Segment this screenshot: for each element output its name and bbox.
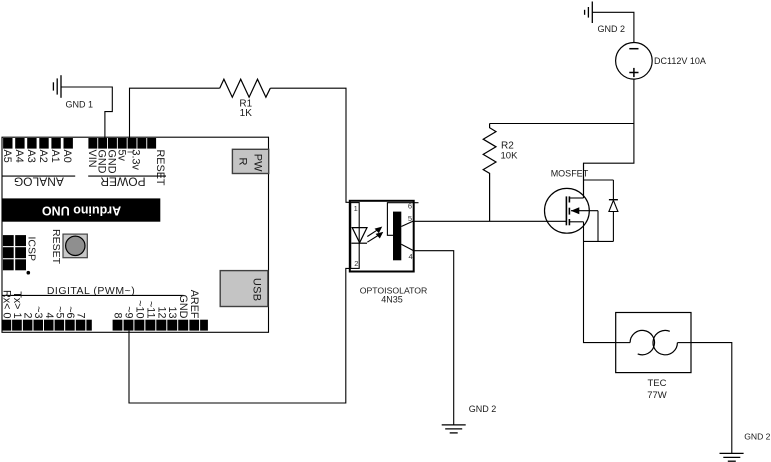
svg-text:~9: ~9 bbox=[123, 306, 135, 318]
opto LED side inner rect bbox=[351, 203, 360, 269]
wire opto pin 4 to GND2 bbox=[414, 251, 454, 425]
ground GND1 symbol (rotated, left) bbox=[53, 75, 61, 98]
TEC module bbox=[616, 313, 691, 373]
wire DC source plus to MOSFET drain bbox=[584, 79, 634, 198]
RESET button bbox=[63, 234, 87, 258]
svg-text:2: 2 bbox=[354, 259, 358, 268]
svg-text:GND: GND bbox=[177, 295, 189, 319]
svg-text:1: 1 bbox=[354, 204, 358, 213]
wire opto pin 5 to MOSFET gate bbox=[414, 220, 567, 222]
wire GND1 to Arduino GND pin bbox=[61, 87, 112, 139]
resistor R1 bbox=[220, 79, 271, 97]
svg-text:12: 12 bbox=[155, 306, 167, 318]
optoisolator U1 4N35 bbox=[350, 201, 419, 272]
transistor Q1 MOSFET bbox=[545, 163, 599, 233]
svg-text:~5: ~5 bbox=[53, 306, 65, 318]
svg-text:GND 2: GND 2 bbox=[469, 404, 497, 414]
Arduino UNO module U2 bbox=[0, 137, 268, 332]
Arduino board outline bbox=[2, 137, 269, 332]
opto base lead to pin 6 bbox=[387, 203, 413, 236]
Arduino digital header pins 0-7 bbox=[2, 320, 92, 331]
svg-text:A3: A3 bbox=[25, 150, 37, 163]
svg-text:A5: A5 bbox=[1, 150, 13, 163]
svg-text:5: 5 bbox=[408, 214, 412, 223]
PWR jack box bbox=[232, 149, 268, 173]
svg-text:10K: 10K bbox=[501, 150, 519, 161]
opto collector lead to pin 5 bbox=[401, 221, 413, 227]
opto LED diode symbol bbox=[351, 228, 367, 244]
svg-text:5v: 5v bbox=[115, 150, 127, 162]
svg-text:4: 4 bbox=[43, 312, 55, 318]
svg-text:A0: A0 bbox=[61, 150, 73, 163]
Arduino power pin labels bbox=[86, 150, 166, 186]
svg-text:ANALOG: ANALOG bbox=[14, 174, 64, 188]
Arduino silkscreen divider line (bottom) bbox=[2, 294, 183, 296]
wire source bottom rail bbox=[584, 240, 614, 242]
svg-text:DC112V 10A: DC112V 10A bbox=[654, 56, 706, 66]
svg-text:6: 6 bbox=[408, 202, 412, 211]
svg-text:4: 4 bbox=[409, 252, 413, 261]
Arduino silkscreen divider lines (top) bbox=[2, 175, 75, 177]
opto pin 6 stub bbox=[414, 202, 419, 204]
resistor R2 bbox=[483, 124, 496, 222]
opto phototransistor bar bbox=[393, 212, 401, 261]
svg-text:Rx< 0: Rx< 0 bbox=[0, 290, 12, 319]
svg-text:2: 2 bbox=[22, 312, 34, 318]
svg-text:13: 13 bbox=[166, 306, 178, 318]
Arduino power header pins bbox=[88, 138, 156, 149]
svg-text:Arduino UNO: Arduino UNO bbox=[42, 204, 121, 218]
svg-text:R: R bbox=[237, 158, 249, 166]
Arduino UNO name banner bbox=[3, 198, 161, 221]
svg-text:RESET: RESET bbox=[50, 229, 62, 265]
opto emitter lead to pin 4 bbox=[401, 244, 413, 250]
Arduino digital header pins 8-AREF bbox=[113, 320, 208, 331]
USB connector box bbox=[220, 271, 268, 307]
wire R1 to optoisolator pin 1 bbox=[270, 88, 350, 202]
svg-text:GND 2: GND 2 bbox=[598, 24, 626, 34]
svg-text:8: 8 bbox=[112, 312, 124, 318]
wire TEC to GND2 (bottom right) bbox=[691, 343, 732, 454]
DC source V1 DC112V 10A bbox=[616, 43, 653, 80]
svg-text:POWER: POWER bbox=[100, 174, 146, 188]
svg-text:ICSP: ICSP bbox=[26, 237, 38, 262]
svg-text:GND 1: GND 1 bbox=[66, 100, 94, 110]
ground GND2 symbol (bottom middle) bbox=[442, 425, 466, 433]
svg-text:PW: PW bbox=[252, 154, 264, 172]
svg-text:AREF: AREF bbox=[188, 290, 200, 319]
wire MOSFET source to TEC bbox=[584, 222, 616, 343]
ICSP header pins bbox=[3, 235, 26, 270]
svg-text:3.3v: 3.3v bbox=[130, 150, 142, 171]
svg-text:4N35: 4N35 bbox=[381, 295, 403, 305]
svg-text:7: 7 bbox=[75, 312, 87, 318]
wire MOSFET body to source rail bbox=[597, 211, 599, 242]
svg-text:~3: ~3 bbox=[32, 306, 44, 318]
svg-text:~10: ~10 bbox=[133, 300, 145, 318]
wire optoisolator pin 2 to Arduino pin ~9 bbox=[129, 268, 350, 403]
svg-text:TEC: TEC bbox=[648, 378, 667, 389]
wire GND2 to DC source minus bbox=[592, 12, 634, 42]
svg-text:A4: A4 bbox=[13, 150, 25, 163]
svg-text:GND 2: GND 2 bbox=[744, 432, 770, 442]
svg-text:77W: 77W bbox=[647, 390, 667, 401]
svg-text:A2: A2 bbox=[37, 150, 49, 163]
svg-text:USB: USB bbox=[251, 278, 263, 302]
opto light arrows bbox=[367, 227, 382, 242]
svg-text:1K: 1K bbox=[240, 108, 253, 119]
ground GND2 symbol (bottom right) bbox=[720, 453, 744, 461]
ground GND2 symbol (top, rotated) bbox=[585, 2, 593, 24]
Arduino digital pin labels bbox=[0, 290, 200, 319]
wire Arduino 5v pin to R1 bbox=[130, 88, 220, 139]
wire R2 top to DC source rail bbox=[490, 123, 634, 125]
svg-text:A1: A1 bbox=[49, 150, 61, 163]
svg-text:~6: ~6 bbox=[64, 306, 76, 318]
svg-text:~11: ~11 bbox=[144, 301, 156, 319]
svg-text:RESET: RESET bbox=[154, 150, 166, 186]
opto outer box bbox=[350, 201, 414, 272]
Arduino analog header pins bbox=[3, 138, 73, 149]
wire drain rail to diode bbox=[584, 179, 614, 181]
Arduino analog pin labels bbox=[1, 150, 73, 163]
diode D1 (flyback) bbox=[609, 180, 618, 241]
ICSP pin1 dot bbox=[27, 271, 31, 275]
svg-text:Tx> 1: Tx> 1 bbox=[11, 291, 23, 318]
